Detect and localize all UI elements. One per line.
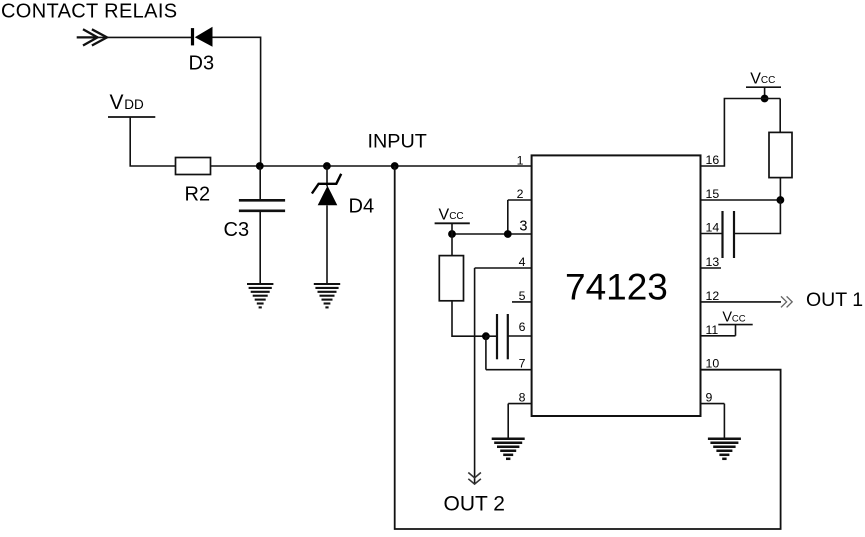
svg-text:2: 2: [517, 187, 524, 201]
wire: input bus to pin 1: [260, 165, 532, 167]
pin 11: [701, 323, 736, 337]
wire: R2 to input node: [211, 165, 260, 167]
svg-text:10: 10: [706, 357, 720, 371]
svg-text:CC: CC: [761, 75, 775, 86]
node: R2/C3 junction: [256, 162, 264, 170]
pin 9: [701, 391, 725, 405]
svg-text:15: 15: [706, 187, 720, 201]
arrow OUT 2: [468, 473, 481, 485]
wire: Vcc node to pin 16: [701, 99, 781, 167]
pin 6: [508, 320, 532, 336]
wire: resistor to pin 15 node: [779, 178, 781, 200]
wire: Vcc node to resistor (right): [779, 99, 781, 133]
wire: C3 to ground: [259, 211, 261, 284]
pin 13: [701, 255, 722, 269]
capacitor (right timing): [723, 211, 735, 258]
input arrow (contact relais): [77, 29, 107, 45]
svg-text:7: 7: [519, 357, 526, 371]
pin 3: [452, 219, 532, 235]
wire: arrow to D3: [98, 36, 191, 38]
svg-text:OUT 2: OUT 2: [444, 493, 505, 516]
wire: timing node to pin 7: [485, 336, 487, 370]
node: pin 15 junction: [777, 196, 785, 204]
wire: Vcc bar to resistor: [451, 223, 453, 255]
zener diode D4: [312, 174, 341, 206]
wire: pin 4 to OUT 2 arrow: [474, 268, 476, 484]
wire: feedback loop (input node to pin 10): [395, 166, 781, 529]
svg-text:16: 16: [706, 153, 720, 167]
resistor (right timing): [769, 132, 792, 177]
resistor R2: [176, 158, 211, 175]
svg-text:CC: CC: [449, 211, 463, 222]
power Vcc (top right): [746, 70, 781, 98]
wire: pin 8 to ground: [507, 404, 509, 439]
svg-text:D4: D4: [349, 196, 375, 218]
svg-text:8: 8: [519, 391, 526, 405]
wire: D4 to ground: [326, 205, 328, 284]
svg-text:11: 11: [706, 323, 719, 337]
svg-text:R2: R2: [185, 184, 211, 206]
node: timing junction (left): [482, 332, 490, 340]
IC U1 74123 body: [532, 155, 701, 416]
svg-text:9: 9: [706, 391, 713, 405]
ground (pin 9): [708, 439, 741, 459]
svg-text:V: V: [110, 91, 124, 114]
resistor (left timing): [439, 256, 463, 301]
svg-text:C3: C3: [224, 219, 250, 241]
svg-text:5: 5: [519, 289, 526, 303]
pin 7: [486, 357, 532, 371]
power VDD symbol: [108, 91, 155, 117]
pin 8: [508, 391, 531, 405]
pin 5: [512, 289, 532, 303]
node: feedback junction: [391, 162, 399, 170]
svg-text:INPUT: INPUT: [368, 131, 427, 153]
svg-text:13: 13: [706, 255, 720, 269]
capacitor C3: [239, 200, 285, 211]
svg-text:1: 1: [517, 154, 524, 168]
svg-text:DD: DD: [124, 97, 144, 112]
svg-text:D3: D3: [189, 53, 215, 75]
wire: VDD to R2: [130, 117, 175, 166]
svg-text:14: 14: [706, 221, 720, 235]
ground (C3): [247, 284, 273, 307]
power Vcc (left): [435, 206, 470, 223]
pin 12: [701, 289, 782, 303]
wire: pin 9 to ground: [723, 404, 725, 439]
wire: node to C3: [259, 166, 261, 200]
wire: node to capacitor: [486, 335, 497, 337]
pin 2: [508, 187, 532, 201]
power Vcc (pin 11): [718, 310, 752, 326]
svg-text:74123: 74123: [565, 267, 668, 308]
pin 15: [701, 187, 781, 201]
capacitor (left timing): [497, 314, 508, 359]
node: D4 junction: [323, 162, 331, 170]
svg-text:V: V: [439, 206, 450, 223]
ground (pin 8): [492, 439, 525, 459]
pin 14: [701, 221, 723, 235]
ground (D4): [314, 284, 340, 307]
svg-text:OUT 1: OUT 1: [806, 289, 863, 311]
svg-text:6: 6: [519, 320, 526, 334]
svg-text:3: 3: [519, 219, 527, 235]
svg-text:CC: CC: [732, 313, 746, 324]
svg-text:12: 12: [706, 289, 720, 303]
node: Vcc left junction: [448, 230, 456, 238]
wire: D3 to input node: [213, 37, 261, 166]
pin 4: [475, 255, 532, 269]
svg-text:CONTACT RELAIS: CONTACT RELAIS: [1, 1, 177, 23]
svg-text:V: V: [722, 310, 732, 326]
node: pin 2/3 junction: [504, 230, 512, 238]
wire: resistor to timing node: [452, 301, 486, 336]
wire: pin 11 to Vcc bar: [735, 325, 737, 336]
wire: pin 2 to pin 3: [507, 200, 509, 234]
wire: node to D4: [326, 166, 328, 187]
wire: capacitor to pin 15 node: [734, 200, 780, 234]
node: Vcc top junction: [761, 95, 769, 103]
arrow OUT 1: [781, 296, 792, 307]
diode D3: [191, 27, 213, 47]
svg-text:4: 4: [519, 255, 526, 269]
svg-text:V: V: [750, 70, 761, 87]
